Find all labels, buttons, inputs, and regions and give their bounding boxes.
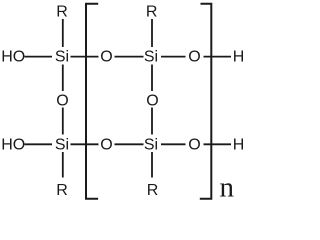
svg-text:H: H <box>233 48 245 65</box>
svg-text:O: O <box>56 92 68 109</box>
bond O-Si row1 <box>115 56 144 58</box>
svg-text:O: O <box>188 48 200 65</box>
bond O-Si left column <box>62 108 64 135</box>
svg-text:H: H <box>233 137 245 154</box>
bracket right <box>200 4 212 199</box>
bond Si-O row2 crossing left bracket <box>71 143 99 145</box>
bond Si-R left column bottom <box>62 152 64 178</box>
svg-text:R: R <box>56 4 68 21</box>
bond O-H row1 crossing right bracket <box>204 56 232 58</box>
svg-text:R: R <box>147 182 159 199</box>
bond Si-R right column bottom <box>151 152 153 178</box>
svg-text:R: R <box>56 182 68 199</box>
svg-text:O: O <box>100 137 112 154</box>
svg-text:Si: Si <box>55 48 69 65</box>
bond HO-Si row2 <box>25 143 53 145</box>
bond O-H row2 crossing right bracket <box>204 143 232 145</box>
bond HO-Si row1 <box>25 56 53 58</box>
bond R-Si right column top <box>151 19 153 47</box>
bond O-Si right column <box>151 108 153 135</box>
svg-text:n: n <box>219 172 234 204</box>
bond Si-O row1 crossing left bracket <box>71 56 99 58</box>
bond Si-O row1 right <box>161 56 186 58</box>
bond Si-O row2 right <box>161 143 186 145</box>
svg-text:Si: Si <box>55 137 69 154</box>
svg-text:Si: Si <box>144 48 158 65</box>
svg-text:O: O <box>100 48 112 65</box>
bond Si-O right column <box>151 65 153 92</box>
svg-text:HO: HO <box>1 48 25 65</box>
bond R-Si left column top <box>62 19 64 47</box>
svg-text:HO: HO <box>1 137 25 154</box>
svg-text:R: R <box>146 4 158 21</box>
svg-text:O: O <box>146 92 158 109</box>
bracket left <box>86 4 98 199</box>
bond O-Si row2 <box>115 143 144 145</box>
svg-text:Si: Si <box>144 137 158 154</box>
svg-text:O: O <box>188 137 200 154</box>
bond Si-O left column <box>62 65 64 92</box>
